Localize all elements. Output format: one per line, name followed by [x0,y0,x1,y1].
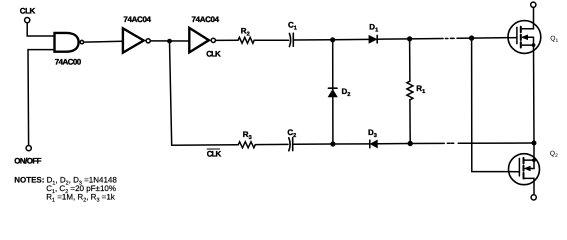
junction gate node [469,35,474,40]
wire gate node down to Q2 gate [472,38,520,172]
resistor R3 [238,142,255,148]
Q1 drain lead [521,7,534,28]
junction node A (C1 / D2 / D1) [330,37,335,42]
wire C2 to node C [293,143,333,145]
wire R2 to C1 [254,39,288,41]
wire dashed break top rail [445,38,448,40]
svg-text:74AC04: 74AC04 [123,15,151,24]
Q1 source lead with body tie [521,37,534,45]
wire R1 branch top (node B down to R1) [409,39,411,81]
wire gate node to Q1 gate [472,37,517,40]
Q2 top lead with body tie [524,143,535,160]
wire node D to dashed break (bottom rail) [410,142,444,144]
svg-text:R1 =1M, R2, R3 =1k: R1 =1M, R2, R3 =1k [46,193,116,202]
wire D1 to node B [377,38,409,40]
label CLK-bar [207,149,222,159]
junction node CLK-bar branch [167,39,172,44]
svg-text:CLK: CLK [20,7,36,16]
wire dashed break to gate junction [457,37,472,39]
capacitor C1 [289,33,293,46]
NAND gate U1 74AC00 [55,33,84,52]
Q2 gate bar [518,158,520,176]
wire dashed break to Q2 drain node [458,142,534,144]
terminal Q1 drain [531,2,536,7]
terminal CLK input [25,18,30,23]
wire inverter 2 output to R2 [216,39,238,41]
notes text block [14,176,117,204]
diode D2 [328,88,337,97]
wire CLK terminal to NAND input A [27,23,54,36]
wire ON/OFF terminal to NAND input B [28,50,55,146]
diode D1 [369,35,377,43]
wire C1 to node A [294,39,333,41]
Q2 body arrow [525,166,531,170]
transistor Q1 (N-channel MOSFET) [508,7,541,143]
junction Q1 source / Q2 drain node [532,141,537,146]
terminal ON/OFF input [26,146,31,151]
terminal Q2 source [531,195,536,200]
inverter U2b 74AC04 [189,28,215,53]
resistor R2 [238,37,254,43]
wire D3 to node D [377,143,410,145]
wire node A to D1 [333,38,369,40]
wire node C to D3 [333,143,370,145]
Q1 gate bar [516,27,518,43]
wire NAND output to inverter 1 [85,40,123,43]
wire CLK-bar drop (junction down to bottom rail) [170,41,239,145]
Q1 channel segments [520,27,522,48]
resistor R1 [407,81,413,100]
wire inverter 1 output to inverter 2 input [151,40,189,42]
wire dashed break bottom rail [447,142,450,144]
Q2 bottom lead [524,178,535,194]
wire R3 to C2 [255,143,288,145]
diode D3 [370,140,377,148]
svg-text:ON/OFF: ON/OFF [14,156,41,165]
junction node D (D3 / R1 / output rail) [408,141,413,146]
capacitor C2 [289,138,293,151]
Q2 channel segments [523,158,525,179]
wire D2 branch (node A down to bottom rail) [332,40,334,144]
junction node C (C2 / D2 / D3) [330,141,335,146]
wire R1 bottom to bottom rail [409,100,411,144]
junction node B (D1 / R1 / gates) [407,36,412,41]
Q1 body arrow [522,35,528,39]
svg-text:CLK: CLK [206,50,221,59]
svg-text:74AC04: 74AC04 [192,15,220,24]
svg-text:CLK: CLK [207,150,222,159]
wire node B to dashed break (top rail) [410,38,443,40]
svg-text:74AC00: 74AC00 [55,57,82,66]
transistor Q2 (N-channel MOSFET) [509,143,540,195]
inverter U2a 74AC04 [123,28,150,52]
